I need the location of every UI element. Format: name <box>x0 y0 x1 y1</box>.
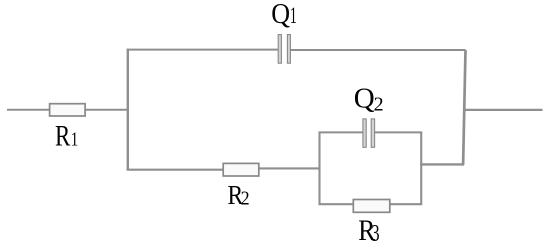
svg-text:R: R <box>55 120 71 152</box>
svg-text:1: 1 <box>290 4 297 29</box>
svg-text:2: 2 <box>241 188 250 210</box>
svg-text:Q: Q <box>354 83 375 115</box>
svg-text:Q: Q <box>271 0 290 29</box>
svg-text:1: 1 <box>71 127 78 150</box>
svg-text:3: 3 <box>371 219 379 243</box>
svg-text:2: 2 <box>374 93 384 115</box>
